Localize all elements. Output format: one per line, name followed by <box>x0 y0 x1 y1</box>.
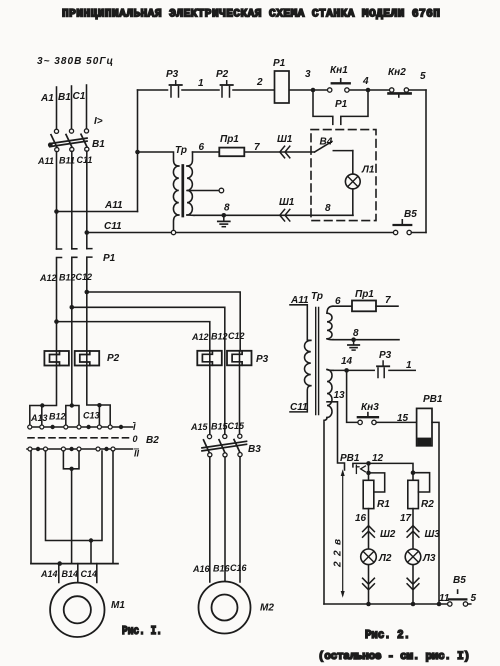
svg-text:17: 17 <box>400 513 412 524</box>
button B5 fig2 (NO) <box>448 590 468 606</box>
svg-text:А14: А14 <box>40 569 58 579</box>
svg-text:Р3: Р3 <box>379 350 392 361</box>
svg-text:В2: В2 <box>146 435 159 446</box>
wire control right rail <box>425 90 427 233</box>
node loop dot <box>69 467 73 471</box>
wire B feeder to M2 branch <box>72 307 225 434</box>
connector Sh2 lower chevrons <box>363 578 375 590</box>
svg-text:5: 5 <box>420 71 426 82</box>
wire phase B middle <box>71 151 73 249</box>
svg-text:R2: R2 <box>421 499 434 510</box>
resistor R2 <box>408 473 419 509</box>
measure arrow 22v <box>341 469 345 597</box>
svg-text:В1: В1 <box>58 92 71 103</box>
button B5 (NO) <box>393 220 426 235</box>
node feeder A dot <box>40 403 44 407</box>
wire C down to B2 <box>87 366 100 406</box>
wire C feeder to M2 branch <box>87 292 240 351</box>
svg-text:В14: В14 <box>62 569 79 579</box>
svg-text:Пр1: Пр1 <box>220 134 239 145</box>
wire 12 drop <box>368 463 370 480</box>
node A12 feeder dot <box>54 319 59 324</box>
contact P3 (NC, thermal relay) <box>170 81 182 97</box>
svg-text:Тр: Тр <box>311 291 323 302</box>
wire M1 terminal bar <box>31 563 118 565</box>
connector Sh3 lower chevrons <box>407 578 419 590</box>
connector Sh1 lower chevrons <box>280 209 290 221</box>
svg-text:Л2: Л2 <box>378 553 392 564</box>
contact P2 (NC, thermal relay) <box>221 81 233 97</box>
node 12 upper dot <box>366 461 371 466</box>
node 8 junction dot <box>222 213 227 218</box>
svg-text:22в: 22в <box>333 539 344 568</box>
svg-text:РВ1: РВ1 <box>423 394 443 405</box>
transformer Tp secondary <box>187 152 194 215</box>
svg-text:Р1: Р1 <box>273 58 286 69</box>
svg-text:6: 6 <box>335 296 341 307</box>
svg-text:А13: А13 <box>30 413 48 423</box>
transformer Tp core <box>181 166 184 217</box>
svg-text:М2: М2 <box>260 603 274 614</box>
time relay coil PB1 <box>417 408 432 445</box>
svg-text:В16: В16 <box>213 564 231 574</box>
node 12 lower dot <box>366 471 371 476</box>
svg-text:В3: В3 <box>248 444 261 455</box>
svg-text:ПРИНЦИПИАЛЬНАЯ ЭЛЕКТРИЧЕСКАЯ С: ПРИНЦИПИАЛЬНАЯ ЭЛЕКТРИЧЕСКАЯ СХЕМА СТАНК… <box>62 9 440 21</box>
wire 7 to plug <box>244 151 314 153</box>
wire drop right to M1 bar <box>112 451 114 564</box>
transformer Tp2 secondary upper <box>327 306 333 340</box>
wire 14 to Kn3 <box>347 370 358 422</box>
svg-text:Рис. 2.: Рис. 2. <box>365 629 410 642</box>
svg-text:Р3: Р3 <box>166 69 179 80</box>
node terminal circle on C11 at transformer <box>171 230 175 234</box>
wire R2 bypass loop <box>413 473 430 492</box>
wire 14 <box>333 369 415 371</box>
node C11 junction dot <box>85 230 90 235</box>
svg-text:1: 1 <box>406 360 412 371</box>
svg-text:С13: С13 <box>83 411 100 421</box>
wire M2 A drop <box>209 365 211 434</box>
svg-text:Р1: Р1 <box>103 253 116 264</box>
contact P3 fig2 (NC) <box>377 361 389 378</box>
connector Sh1 upper chevrons <box>280 146 290 158</box>
wire M2 drops to motor <box>210 457 240 582</box>
motor M1 <box>50 583 104 637</box>
svg-text:М1: М1 <box>111 600 125 611</box>
node feeder B dot <box>70 403 74 407</box>
switch B2 link bracket 3 <box>99 405 110 425</box>
switch B2 link bracket 2 <box>66 406 79 425</box>
svg-text:А12: А12 <box>191 332 209 342</box>
node lamp L3 bottom dot <box>411 602 416 607</box>
wire 12 <box>353 463 413 472</box>
lamp L1 <box>345 151 360 216</box>
node R2 dot <box>411 470 416 475</box>
svg-text:4: 4 <box>362 76 369 87</box>
svg-text:(остальное - см. рис. I): (остальное - см. рис. I) <box>318 651 470 663</box>
switch B2 row II <box>27 447 133 451</box>
switch B4 <box>315 142 353 153</box>
svg-text:R1: R1 <box>377 499 390 510</box>
svg-text:16: 16 <box>355 513 367 524</box>
svg-text:В5: В5 <box>404 209 417 220</box>
svg-text:Кн1: Кн1 <box>330 65 348 76</box>
switch B2 link bracket 1 <box>30 406 42 425</box>
svg-text:Кн2: Кн2 <box>388 67 406 78</box>
wire 7 fig2 <box>376 305 398 307</box>
wire A11 branch <box>57 211 138 213</box>
node B12 feeder dot <box>70 305 75 310</box>
wire secondary center tap <box>187 190 219 192</box>
node feeder C dot <box>97 403 101 407</box>
svg-text:Ш1: Ш1 <box>279 197 295 208</box>
svg-text:С12: С12 <box>76 272 93 282</box>
transformer Tp2 primary <box>290 340 311 412</box>
wire lamp branch L3 <box>412 509 414 604</box>
node lamp L2 bottom dot <box>366 602 371 607</box>
wire B2 loop below row II <box>63 451 79 469</box>
wire R1 bypass loop <box>369 473 385 492</box>
svg-text:А11: А11 <box>104 200 123 211</box>
node A11 junction dot <box>54 209 59 214</box>
node 4 junction dot <box>366 88 371 93</box>
wire C11 run <box>87 232 394 234</box>
svg-text:Р2: Р2 <box>107 353 120 364</box>
svg-text:В12: В12 <box>211 332 228 342</box>
svg-text:С12: С12 <box>228 331 245 341</box>
wire PB1 to right rail <box>432 422 439 604</box>
svg-text:Ш1: Ш1 <box>277 134 293 145</box>
switch B2 neutral dashed line <box>28 437 130 439</box>
wire loop down to M1 bar <box>71 469 73 564</box>
svg-text:С1: С1 <box>73 91 86 102</box>
svg-text:А11: А11 <box>37 156 54 166</box>
ground <box>218 215 230 226</box>
svg-text:В5: В5 <box>453 575 466 586</box>
fuse Pr1 fig2 <box>352 301 376 312</box>
contact PB1 (time-delay) <box>356 465 365 473</box>
button Kn2 (stop, NC) <box>389 88 411 97</box>
svg-text:Тр: Тр <box>175 145 187 156</box>
svg-text:А16: А16 <box>192 564 211 574</box>
svg-text:В12: В12 <box>59 273 76 283</box>
svg-text:Ш2: Ш2 <box>380 529 396 540</box>
svg-text:А15: А15 <box>190 422 209 432</box>
wire fig2 bottom <box>324 603 471 605</box>
svg-text:Ш3: Ш3 <box>425 529 441 540</box>
wire M2 C drop <box>239 365 241 434</box>
svg-text:Л3: Л3 <box>422 553 436 564</box>
thermal element P2 phase C <box>75 351 100 366</box>
wire phase C top <box>86 85 88 129</box>
svg-text:Р1: Р1 <box>335 99 348 110</box>
switch B1 (3-pole knife switch with overcurrent release) <box>48 129 89 152</box>
wire phase B top <box>71 86 73 129</box>
svg-text:Р3: Р3 <box>256 354 269 365</box>
node jog dot <box>89 538 93 542</box>
lamp L2 <box>361 549 377 565</box>
wire 6 to fuse <box>193 151 220 153</box>
thermal element P3 phase A <box>197 351 222 366</box>
wire drop 1 to M1 bar <box>30 451 32 564</box>
svg-text:2: 2 <box>256 77 263 88</box>
svg-text:С11: С11 <box>77 155 93 165</box>
svg-text:В4: В4 <box>320 137 333 148</box>
svg-text:II: II <box>134 449 140 459</box>
svg-text:12: 12 <box>372 453 384 464</box>
node rail dot <box>437 602 442 607</box>
svg-text:8: 8 <box>224 203 230 214</box>
svg-text:С15: С15 <box>228 421 246 431</box>
node 3 junction dot <box>311 88 316 93</box>
svg-text:А12: А12 <box>39 273 57 283</box>
ground fig2 <box>348 340 359 350</box>
svg-text:7: 7 <box>385 295 391 306</box>
svg-text:5: 5 <box>471 593 477 604</box>
transformer Tp2 secondary lower <box>324 370 333 605</box>
svg-text:3: 3 <box>305 69 311 80</box>
svg-text:8: 8 <box>353 328 359 339</box>
svg-text:Р2: Р2 <box>216 69 229 80</box>
svg-text:8: 8 <box>325 203 331 214</box>
svg-text:В1: В1 <box>92 139 105 150</box>
wire 6 fig2 <box>333 305 352 307</box>
wire secondary bottom run 8 <box>194 214 353 216</box>
resistor R1 <box>363 480 374 508</box>
svg-text:А1: А1 <box>40 93 54 104</box>
lamp L3 <box>405 549 421 565</box>
svg-text:С11: С11 <box>290 402 308 413</box>
switch B2 row I <box>28 425 133 429</box>
switch B3 (3-pole) <box>202 434 247 457</box>
connector Sh3 chevrons <box>407 526 419 538</box>
svg-text:3~ 380В 50Гц: 3~ 380В 50Гц <box>37 56 113 67</box>
fuse Pr1 <box>219 148 244 157</box>
svg-text:1: 1 <box>198 78 204 89</box>
transformer Tp primary <box>138 152 179 230</box>
svg-text:С14: С14 <box>81 569 98 579</box>
wire control bus top <box>138 89 427 91</box>
wire 13 tap <box>327 402 345 470</box>
svg-text:В12: В12 <box>49 412 66 422</box>
thermal element P2 phase A <box>44 351 69 366</box>
svg-text:С16: С16 <box>230 563 248 573</box>
wire lamp branch L2 <box>368 509 370 604</box>
contact P1 self-holding <box>313 90 368 124</box>
wire A feeder to M2 branch <box>57 322 210 351</box>
wire phase A middle <box>56 152 58 250</box>
node 14 junction dot <box>344 368 349 373</box>
wire control left riser <box>137 90 139 212</box>
wire 8 fig2 <box>333 339 399 341</box>
motor M2 <box>199 582 251 634</box>
node 8 fig2 dot <box>351 337 356 342</box>
thermal element P3 phase C <box>227 351 252 366</box>
node center tap terminal circle <box>219 188 224 193</box>
wire 15 <box>376 421 416 423</box>
dashed enclosure of lamp unit <box>311 130 376 221</box>
wire M1 stubs <box>59 564 97 583</box>
node Tp primary junction dot <box>135 150 140 155</box>
svg-text:13: 13 <box>334 390 346 401</box>
wire A down to B2 <box>42 366 57 406</box>
svg-text:РВ1: РВ1 <box>340 453 360 464</box>
button Kn3 (NO) <box>358 413 378 425</box>
transformer Tp2 core <box>316 308 319 415</box>
svg-text:I>: I> <box>94 116 103 127</box>
svg-text:В15: В15 <box>211 422 229 432</box>
button Kn1 (start, NO) <box>328 79 350 92</box>
wire drop 2 with jog <box>46 451 103 541</box>
svg-text:Кн3: Кн3 <box>361 402 379 413</box>
svg-text:0: 0 <box>133 434 138 444</box>
svg-text:Рис. I.: Рис. I. <box>122 625 162 638</box>
svg-text:Пр1: Пр1 <box>355 289 374 300</box>
relay coil P1 <box>275 71 290 103</box>
svg-text:14: 14 <box>341 356 353 367</box>
connector Sh2 chevrons <box>363 526 375 538</box>
wire jog down <box>90 541 92 564</box>
node C12 feeder dot <box>85 290 90 295</box>
wire phase A top <box>56 87 58 129</box>
contactor P1 main contacts <box>57 249 92 406</box>
wire phase C middle <box>86 151 88 249</box>
svg-text:Л1: Л1 <box>361 165 375 176</box>
node bar dot <box>57 561 62 566</box>
wire A11 lead fig2 <box>290 305 307 340</box>
svg-text:С11: С11 <box>104 221 122 232</box>
